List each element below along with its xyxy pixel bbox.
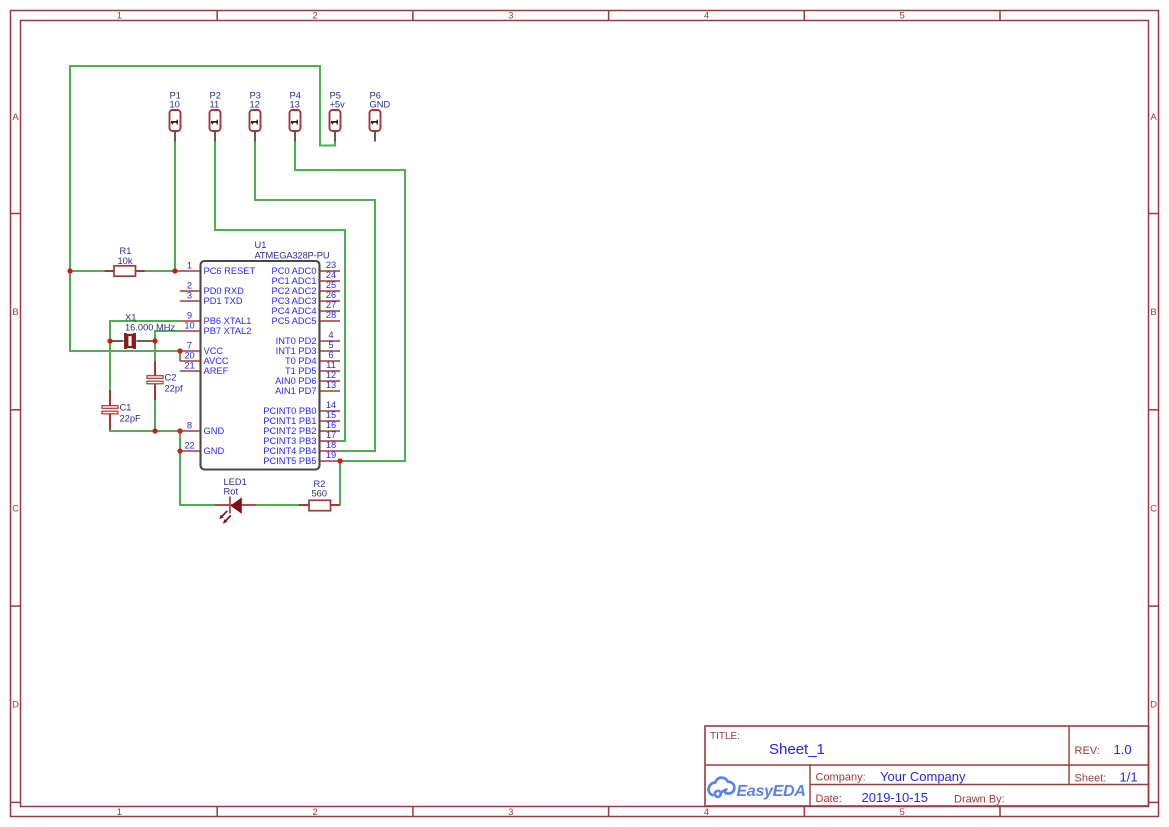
svg-text:5: 5: [900, 11, 905, 22]
svg-text:AIN0 PD6: AIN0 PD6: [275, 376, 316, 386]
svg-text:PC1 ADC1: PC1 ADC1: [272, 276, 317, 286]
svg-text:4: 4: [704, 11, 709, 22]
svg-text:5: 5: [328, 340, 333, 350]
svg-text:13: 13: [326, 380, 336, 390]
svg-text:PB6 XTAL1: PB6 XTAL1: [204, 316, 252, 326]
svg-text:21: 21: [184, 360, 194, 370]
svg-text:7: 7: [187, 340, 192, 350]
svg-text:PD1 TXD: PD1 TXD: [204, 296, 243, 306]
svg-text:AVCC: AVCC: [204, 356, 229, 366]
svg-text:1: 1: [187, 260, 192, 270]
svg-text:PC5 ADC5: PC5 ADC5: [272, 316, 317, 326]
svg-text:Rot: Rot: [224, 487, 239, 497]
svg-text:INT1 PD3: INT1 PD3: [276, 346, 317, 356]
svg-text:LED1: LED1: [224, 477, 247, 487]
svg-text:11: 11: [210, 99, 220, 109]
svg-text:T0 PD4: T0 PD4: [285, 356, 317, 366]
svg-text:1: 1: [117, 807, 122, 818]
svg-text:U1: U1: [255, 240, 267, 250]
svg-text:12: 12: [250, 99, 260, 109]
svg-text:GND: GND: [370, 99, 391, 109]
svg-text:Date:: Date:: [816, 793, 842, 805]
svg-text:ATMEGA328P-PU: ATMEGA328P-PU: [255, 251, 330, 261]
svg-text:14: 14: [326, 400, 336, 410]
svg-text:A: A: [1150, 112, 1157, 123]
svg-text:Drawn By:: Drawn By:: [954, 794, 1005, 806]
svg-text:4: 4: [704, 807, 709, 818]
svg-text:19: 19: [326, 450, 336, 460]
svg-text:3: 3: [508, 11, 513, 22]
svg-text:9: 9: [187, 310, 192, 320]
svg-text:EasyEDA: EasyEDA: [737, 783, 806, 800]
svg-text:15: 15: [326, 410, 336, 420]
svg-text:8: 8: [187, 420, 192, 430]
svg-text:16: 16: [326, 420, 336, 430]
svg-text:22pF: 22pF: [120, 414, 142, 424]
svg-text:10k: 10k: [118, 256, 133, 266]
svg-text:18: 18: [326, 440, 336, 450]
svg-text:26: 26: [326, 290, 336, 300]
svg-text:AREF: AREF: [204, 366, 229, 376]
svg-text:AIN1 PD7: AIN1 PD7: [275, 386, 316, 396]
svg-text:25: 25: [326, 280, 336, 290]
svg-text:24: 24: [326, 270, 336, 280]
svg-text:Company:: Company:: [816, 771, 866, 783]
svg-text:PD0 RXD: PD0 RXD: [204, 286, 245, 296]
svg-text:2: 2: [312, 807, 317, 818]
svg-text:TITLE:: TITLE:: [710, 731, 740, 742]
svg-text:11: 11: [326, 360, 336, 370]
svg-text:10: 10: [184, 320, 194, 330]
svg-text:INT0 PD2: INT0 PD2: [276, 336, 317, 346]
svg-text:C1: C1: [120, 403, 132, 413]
svg-text:22: 22: [184, 440, 194, 450]
svg-text:GND: GND: [204, 446, 225, 456]
svg-text:GND: GND: [204, 426, 225, 436]
svg-text:17: 17: [326, 430, 336, 440]
svg-text:23: 23: [326, 260, 336, 270]
svg-text:B: B: [1150, 307, 1156, 318]
svg-text:560: 560: [312, 489, 328, 499]
svg-text:1.0: 1.0: [1114, 742, 1132, 757]
svg-text:1: 1: [117, 11, 122, 22]
svg-text:C2: C2: [165, 373, 177, 383]
svg-text:PCINT0 PB0: PCINT0 PB0: [263, 406, 316, 416]
svg-text:PCINT3 PB3: PCINT3 PB3: [263, 436, 316, 446]
svg-text:PCINT4 PB4: PCINT4 PB4: [263, 446, 316, 456]
svg-text:PC6 RESET: PC6 RESET: [204, 266, 256, 276]
svg-text:R2: R2: [314, 479, 326, 489]
svg-text:28: 28: [326, 310, 336, 320]
svg-text:16.000 MHz: 16.000 MHz: [125, 323, 175, 333]
svg-text:REV:: REV:: [1075, 745, 1100, 757]
svg-text:20: 20: [184, 350, 194, 360]
svg-text:6: 6: [328, 350, 333, 360]
svg-text:PC2 ADC2: PC2 ADC2: [272, 286, 317, 296]
svg-text:2019-10-15: 2019-10-15: [862, 790, 929, 805]
svg-text:3: 3: [508, 807, 513, 818]
svg-text:B: B: [12, 307, 18, 318]
svg-text:4: 4: [328, 330, 333, 340]
svg-text:Sheet:: Sheet:: [1075, 772, 1107, 784]
svg-text:5: 5: [900, 807, 905, 818]
svg-text:D: D: [1150, 700, 1157, 711]
svg-text:12: 12: [326, 370, 336, 380]
svg-text:+5v: +5v: [330, 99, 346, 109]
svg-text:PCINT1 PB1: PCINT1 PB1: [263, 416, 316, 426]
svg-text:13: 13: [290, 99, 300, 109]
svg-text:VCC: VCC: [204, 346, 224, 356]
svg-text:27: 27: [326, 300, 336, 310]
svg-text:PC3 ADC3: PC3 ADC3: [272, 296, 317, 306]
svg-text:Your Company: Your Company: [880, 769, 966, 784]
svg-text:X1: X1: [125, 313, 136, 323]
svg-text:R1: R1: [120, 246, 132, 256]
svg-text:PCINT2 PB2: PCINT2 PB2: [263, 426, 316, 436]
svg-text:T1 PD5: T1 PD5: [285, 366, 317, 376]
svg-text:10: 10: [170, 99, 180, 109]
svg-text:PC4 ADC4: PC4 ADC4: [272, 306, 317, 316]
svg-text:PC0 ADC0: PC0 ADC0: [272, 266, 317, 276]
svg-text:C: C: [1150, 503, 1157, 514]
svg-text:2: 2: [312, 11, 317, 22]
svg-text:D: D: [12, 700, 19, 711]
svg-text:2: 2: [187, 280, 192, 290]
svg-text:C: C: [12, 503, 19, 514]
svg-text:Sheet_1: Sheet_1: [769, 741, 825, 758]
svg-text:PCINT5 PB5: PCINT5 PB5: [263, 456, 316, 466]
svg-text:1/1: 1/1: [1120, 770, 1138, 785]
svg-text:PB7 XTAL2: PB7 XTAL2: [204, 326, 252, 336]
svg-text:3: 3: [187, 290, 192, 300]
svg-text:A: A: [12, 112, 19, 123]
svg-text:22pf: 22pf: [165, 384, 184, 394]
